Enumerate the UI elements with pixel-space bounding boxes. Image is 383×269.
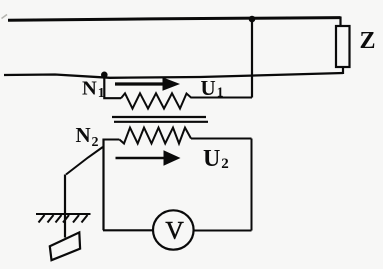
- svg-text:N: N: [82, 77, 97, 99]
- svg-text:U: U: [201, 76, 216, 100]
- wire: N2 left lead: [104, 139, 120, 141]
- svg-text:V: V: [165, 216, 184, 245]
- transformer core line (lower): [114, 121, 208, 123]
- wire: top busbar line 1: [8, 18, 341, 21]
- svg-text:N: N: [76, 123, 91, 147]
- wire: busbar line 2: [4, 73, 343, 78]
- scan artifact top-left: [2, 15, 8, 19]
- node N1: junction dot on line 2: [101, 72, 108, 79]
- svg-text:1: 1: [217, 85, 224, 100]
- wire: stem from N1 dot down and left lead into winding: [104, 75, 121, 98]
- svg-text:U: U: [203, 146, 220, 172]
- arrow U1: [115, 82, 164, 85]
- voltmeter V (circle): [153, 210, 194, 249]
- wire: from right vertical to voltmeter: [194, 230, 252, 232]
- wire: right vertical of secondary loop: [251, 139, 253, 231]
- wire: stub from load Z bottom to line 2: [342, 67, 344, 74]
- ground (hatched earth symbol): [36, 214, 91, 223]
- wire: stub from line 1 down to load Z top: [339, 17, 341, 27]
- node N2 and wire: vertical from N2 node down to voltmeter row: [102, 139, 104, 231]
- transformer core line (upper): [112, 116, 206, 118]
- load Z (rectangle): [336, 26, 350, 67]
- node: junction dot on line 1: [249, 16, 256, 23]
- svg-text:Z: Z: [360, 28, 376, 54]
- wire: N2 right lead: [191, 138, 252, 140]
- wire: from voltmeter left to N2 vertical: [103, 229, 153, 231]
- arrow U2: [116, 157, 166, 160]
- wire: diagonal from N2 node to earth lead: [66, 147, 103, 175]
- winding N2 (secondary, zigzag): [119, 128, 191, 144]
- svg-text:2: 2: [221, 156, 229, 172]
- earth electrode plate (parallelogram): [50, 232, 80, 260]
- winding N1 (primary, zigzag): [121, 93, 252, 108]
- wire: earth lead vertical: [64, 175, 66, 238]
- svg-text:2: 2: [92, 135, 99, 150]
- wire: vertical from line-1 junction down to N1 right lead: [251, 19, 253, 98]
